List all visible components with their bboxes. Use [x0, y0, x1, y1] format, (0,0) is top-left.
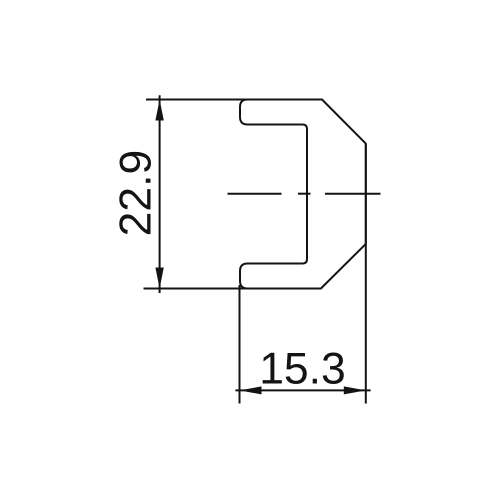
- dimension line 22.9: [159, 95, 161, 293]
- svg-text:15.3: 15.3: [259, 345, 346, 394]
- arrow down: [155, 268, 163, 289]
- arrow up: [155, 100, 163, 121]
- extension line left (15.3): [239, 285, 241, 404]
- extension line top (22.9): [146, 99, 322, 101]
- centerline: [228, 193, 381, 195]
- extension line bottom (22.9): [144, 288, 321, 290]
- svg-text:22.9: 22.9: [112, 150, 161, 237]
- dimension line 15.3: [235, 389, 370, 391]
- profile outline: [240, 100, 366, 289]
- arrow left: [240, 386, 262, 394]
- arrow right: [344, 386, 366, 394]
- extension line right (15.3): [365, 144, 367, 404]
